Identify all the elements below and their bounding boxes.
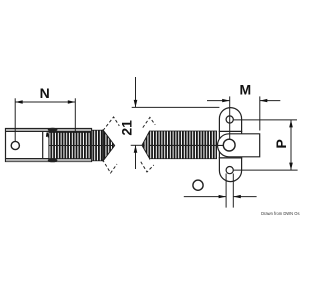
central hole [223, 139, 235, 151]
rod axis line into boss [150, 144, 223, 146]
hole diameter dimension [184, 174, 257, 208]
break chevron lower right rod [141, 162, 154, 172]
crimp dimple top [48, 128, 58, 132]
dimension 21 [118, 77, 219, 169]
svg-text:21: 21 [118, 120, 134, 136]
svg-text:N: N [40, 85, 50, 101]
break chevron lower left rod [103, 160, 118, 174]
top tab hole [226, 116, 233, 123]
dimension N [15, 85, 75, 141]
hole diameter symbol [193, 180, 203, 190]
watermark text [261, 211, 299, 216]
break chevron upper right rod [143, 117, 155, 127]
bracket bottom tab [219, 158, 241, 182]
svg-text:Drawn from DWN Os: Drawn from DWN Os [261, 211, 299, 216]
exposed thread (left stud) [92, 130, 115, 161]
dimension P [234, 120, 298, 170]
boss and body [218, 134, 260, 157]
sleeve divider line [42, 132, 44, 159]
right rod break cone [142, 131, 150, 159]
sleeve body (left terminal) [6, 129, 92, 162]
left stud axis line [49, 145, 112, 147]
break chevron upper left rod [103, 117, 119, 131]
inner thread (left stud inside sleeve) [49, 132, 92, 158]
bracket plate middle [219, 131, 241, 158]
thread start mark [47, 133, 49, 138]
svg-text:M: M [239, 82, 251, 98]
dimension M [207, 82, 280, 140]
crimp dimple bottom [48, 158, 58, 162]
right rod thread [150, 131, 217, 159]
bottom tab hole [226, 167, 233, 174]
svg-text:P: P [273, 139, 289, 148]
bracket top tab [219, 108, 241, 132]
jaw hole [11, 141, 19, 149]
